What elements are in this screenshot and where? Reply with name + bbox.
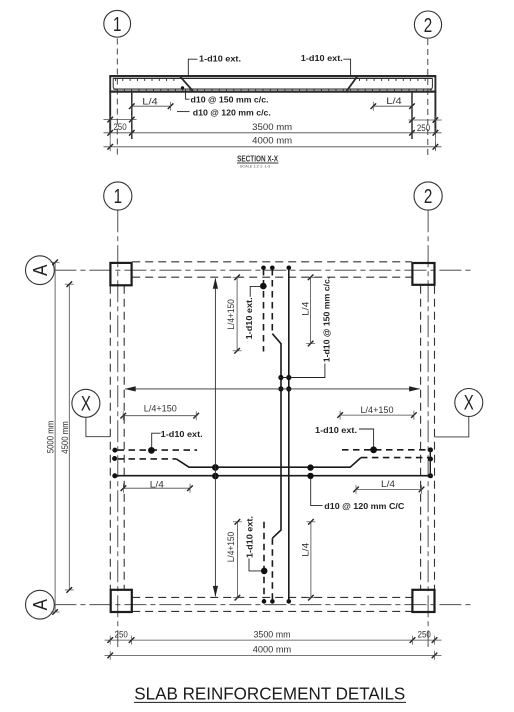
svg-text:SLAB REINFORCEMENT DETAILS: SLAB REINFORCEMENT DETAILS	[134, 684, 405, 704]
svg-text:1-d10 ext.: 1-d10 ext.	[244, 516, 254, 558]
svg-text:1: 1	[113, 13, 121, 36]
svg-text:250: 250	[418, 629, 431, 639]
svg-text:4000 mm: 4000 mm	[253, 644, 292, 654]
svg-text:1: 1	[114, 185, 122, 208]
svg-text:X: X	[81, 391, 91, 415]
svg-text:A: A	[29, 598, 52, 610]
svg-text:1-d10 ext.: 1-d10 ext.	[301, 53, 343, 63]
svg-text:1-d10 ext.: 1-d10 ext.	[161, 429, 203, 439]
svg-text:· SCALE 1:2·1··1·3 ·: · SCALE 1:2·1··1·3 ·	[238, 164, 273, 168]
svg-text:1-d10 ext.: 1-d10 ext.	[315, 425, 357, 435]
svg-text:1-d10 ext.: 1-d10 ext.	[244, 297, 254, 339]
svg-text:d10 @ 150 mm c/c.: d10 @ 150 mm c/c.	[191, 94, 269, 104]
svg-text:250: 250	[113, 122, 126, 132]
svg-text:X: X	[464, 390, 474, 414]
svg-text:L/4+150: L/4+150	[226, 532, 236, 562]
svg-text:d10 @ 120 mm c/c.: d10 @ 120 mm c/c.	[193, 108, 271, 118]
svg-text:L/4: L/4	[300, 302, 310, 316]
svg-text:d10 @ 120 mm C/C: d10 @ 120 mm C/C	[324, 501, 404, 511]
svg-text:L/4+150: L/4+150	[144, 404, 177, 414]
svg-text:2: 2	[424, 14, 432, 37]
svg-text:250: 250	[417, 123, 430, 133]
svg-text:5000 mm: 5000 mm	[45, 421, 55, 454]
svg-text:A: A	[29, 264, 52, 276]
svg-text:L/4: L/4	[142, 96, 158, 106]
svg-text:3500 mm: 3500 mm	[252, 122, 292, 132]
svg-text:1-d10 @ 150 mm c/c.: 1-d10 @ 150 mm c/c.	[321, 277, 331, 363]
svg-text:L/4: L/4	[150, 480, 164, 490]
svg-text:L/4+150: L/4+150	[361, 405, 394, 415]
svg-text:SECTION X-X: SECTION X-X	[237, 155, 279, 164]
svg-text:L/4: L/4	[300, 543, 310, 557]
svg-text:L/4: L/4	[386, 96, 402, 106]
svg-text:3500 mm: 3500 mm	[254, 629, 291, 639]
svg-text:1-d10 ext.: 1-d10 ext.	[199, 54, 241, 64]
svg-text:4000 mm: 4000 mm	[252, 136, 292, 146]
svg-text:4500 mm: 4500 mm	[60, 421, 70, 454]
svg-text:L/4: L/4	[381, 479, 395, 489]
svg-text:2: 2	[424, 185, 432, 208]
svg-text:L/4+150: L/4+150	[226, 299, 236, 329]
svg-text:250: 250	[115, 629, 128, 639]
